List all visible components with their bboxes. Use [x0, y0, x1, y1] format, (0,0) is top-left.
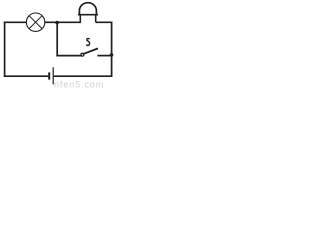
node B (junction dot on right wire) [110, 53, 114, 57]
label S [87, 38, 90, 45]
wire: top-left segment [4, 21, 27, 23]
switch blade [84, 48, 98, 53]
battery positive electrode (long thin) [52, 67, 54, 84]
battery negative electrode (short thick) [48, 72, 50, 79]
switch pivot circle [81, 53, 84, 56]
bell right leg [95, 15, 97, 23]
node A (junction dot) [55, 21, 59, 25]
lamp L (circle with X) [26, 13, 44, 31]
wire: switch branch right segment [97, 55, 111, 57]
wire: bottom-right segment [54, 75, 112, 77]
wire: switch branch left segment [56, 55, 81, 57]
bell dome [79, 3, 96, 15]
wire: left vertical side [4, 22, 6, 78]
wire: bottom-left segment [4, 75, 49, 77]
wire: top middle segment (lamp to bell) [45, 21, 81, 23]
wire: right vertical side [111, 22, 113, 78]
wire: top-right segment (bell to corner) [96, 21, 113, 23]
wire: branch vertical from node A [56, 22, 58, 56]
bell base line [78, 14, 98, 16]
svg-text:nfen5.com: nfen5.com [54, 80, 104, 90]
bell left leg [79, 15, 81, 23]
